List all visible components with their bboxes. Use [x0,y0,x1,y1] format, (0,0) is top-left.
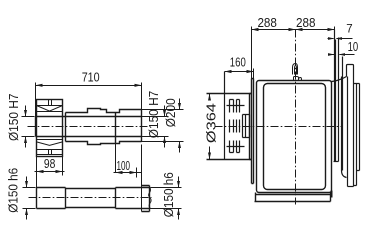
svg-text:Ø364: Ø364 [203,103,218,143]
svg-text:98: 98 [44,156,56,171]
svg-text:100: 100 [117,158,131,173]
svg-text:Ø150 h6: Ø150 h6 [161,172,176,217]
svg-text:288: 288 [257,15,277,30]
svg-text:Ø150 H7: Ø150 H7 [6,94,21,142]
svg-text:Ø150 H7: Ø150 H7 [146,91,161,139]
svg-text:7: 7 [346,24,352,36]
svg-text:160: 160 [230,55,246,70]
svg-text:10: 10 [348,40,359,54]
svg-text:Ø200: Ø200 [163,98,178,127]
svg-text:710: 710 [82,70,100,85]
svg-text:288: 288 [296,15,316,30]
svg-text:Ø150 h6: Ø150 h6 [5,168,20,213]
